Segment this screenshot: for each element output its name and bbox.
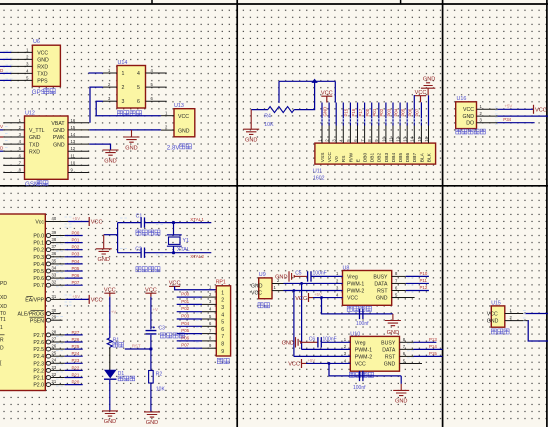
svg-text:PWK: PWK — [53, 135, 65, 141]
svg-text:Vcc: Vcc — [35, 220, 44, 226]
wire V0 top rail — [279, 80, 335, 82]
pin 32 of U7 (P0.7) — [46, 283, 51, 287]
capacitor C2 ceramic — [135, 246, 160, 272]
wire LCD col 11 — [392, 103, 394, 126]
pin 25 of U7 (P2.4) — [46, 354, 51, 358]
junction arrow on V0 wire — [311, 79, 317, 83]
wire C3 to RST junction — [150, 335, 152, 349]
wire V0 rail down to LCD pin3 — [334, 81, 336, 102]
svg-text:T1: T1 — [0, 317, 6, 323]
pin 27 of U7 (P2.6) — [46, 340, 51, 344]
wire U12 pin15 to U13 pin2 — [89, 129, 161, 131]
svg-text:VSS: VSS — [320, 153, 326, 163]
svg-text:VCC: VCC — [169, 281, 181, 287]
power VCC above R1 — [104, 293, 115, 297]
svg-text:P02: P02 — [379, 108, 384, 116]
svg-text:GND: GND — [387, 330, 399, 336]
svg-text:16: 16 — [71, 118, 76, 123]
svg-text:RP1: RP1 — [216, 280, 226, 286]
wire P25 — [65, 348, 83, 350]
svg-text:P0.2: P0.2 — [33, 248, 44, 254]
wire LCD col 16 — [428, 95, 430, 125]
wire P15 — [414, 355, 443, 357]
pin 1 of U13 — [161, 115, 174, 117]
svg-text:U10: U10 — [350, 331, 360, 337]
pin 5 of U6 — [11, 79, 32, 81]
wire P14 — [414, 348, 443, 350]
pin 8 of U10 — [400, 341, 414, 343]
wire U14 pin2 down to U12 pin16 — [90, 87, 103, 123]
svg-text:P2.0: P2.0 — [33, 383, 44, 389]
svg-text:34: 34 — [52, 265, 57, 270]
svg-text:100nf: 100nf — [353, 385, 366, 391]
wire U16 pin1 to VCC — [497, 108, 533, 110]
wire pin stub LCD col 6 — [357, 126, 359, 144]
svg-text:U13: U13 — [174, 103, 184, 109]
svg-text:P2.6: P2.6 — [33, 340, 44, 346]
wire stub U14 pin1 — [88, 72, 103, 74]
ground GND below D1 — [102, 411, 118, 417]
svg-text:P22: P22 — [72, 365, 80, 370]
svg-text:R: R — [0, 337, 4, 343]
svg-text:P15: P15 — [344, 108, 349, 116]
svg-text:100nF: 100nF — [313, 270, 327, 276]
svg-text:1: 1 — [122, 71, 125, 77]
svg-text:TXD: TXD — [29, 142, 40, 148]
junction RST — [149, 347, 152, 350]
svg-text:E: E — [355, 159, 361, 162]
pin 24 of U7 (P2.3) — [46, 361, 51, 365]
svg-text:VCC: VCC — [463, 107, 474, 113]
op-amp U6 GPS module connector — [11, 39, 60, 96]
svg-text:40: 40 — [52, 216, 57, 221]
svg-text:GND: GND — [53, 142, 65, 148]
pin 34 of U7 (P0.5) — [46, 269, 51, 273]
wire into U10 pin2 — [302, 348, 351, 350]
pin 2 of U16 — [477, 115, 498, 117]
ground GND below U8 — [385, 314, 401, 326]
svg-text:DB4: DB4 — [391, 153, 397, 163]
svg-text:C3: C3 — [159, 325, 166, 331]
pin 22 of U7 (P2.1) — [46, 376, 51, 380]
sheet border vertical right-middle — [442, 0, 444, 427]
ground GND left of R4 — [243, 129, 259, 135]
pin 28 of U7 (P2.7) — [46, 333, 51, 337]
svg-text:P03: P03 — [181, 314, 189, 319]
svg-text:VBAT: VBAT — [51, 121, 65, 127]
junction on row3 — [293, 289, 296, 292]
svg-text:30: 30 — [52, 308, 57, 313]
svg-text:Y1: Y1 — [183, 238, 189, 244]
svg-text:+5V: +5V — [72, 294, 80, 299]
power VCC above C3 — [145, 293, 156, 297]
svg-text:V0: V0 — [334, 156, 340, 162]
pin 2 of RP1 — [202, 296, 216, 298]
svg-text:3: 3 — [122, 99, 125, 105]
svg-text:R4: R4 — [264, 114, 271, 120]
wire R4 right up to V0 rail — [294, 81, 314, 109]
resistor R4 10K contrast pot — [264, 107, 294, 129]
sheet border horizontal top — [0, 3, 548, 5]
svg-text:+V: +V — [153, 307, 159, 312]
power VCC right of U16 pin1 — [533, 105, 535, 114]
wire to U6 pin1 — [0, 51, 11, 53]
svg-text:4: 4 — [221, 312, 224, 318]
wire R4 left to ground — [251, 109, 268, 111]
svg-text:P01: P01 — [372, 108, 377, 116]
pin 12 of U12 — [68, 150, 89, 152]
wire P21 — [65, 377, 83, 379]
wire LCD col 8 — [371, 103, 373, 126]
pin 39 of U7 (P0.0) — [46, 234, 51, 238]
svg-text:GND: GND — [37, 58, 49, 64]
svg-text:P03: P03 — [386, 108, 391, 116]
wire P13 — [414, 341, 437, 343]
pin 8 of U12 — [3, 172, 24, 174]
wire pin stub LCD col 2 — [328, 126, 330, 144]
pin 4 of RP1 — [202, 311, 216, 313]
wire pin stub LCD col 3 — [335, 126, 337, 144]
junction U10 pin4 branch — [328, 362, 331, 365]
svg-text:U8: U8 — [343, 266, 350, 272]
wire P20 — [65, 384, 83, 386]
svg-text:BUSY: BUSY — [381, 340, 396, 346]
wire LCD col 9 — [378, 103, 380, 126]
svg-text:U16: U16 — [457, 96, 467, 102]
op-amp U12 GSM module — [3, 111, 89, 188]
wire P23 — [65, 362, 83, 364]
pin 36 of U7 (P0.3) — [46, 255, 51, 259]
pin 3 of U6 — [11, 65, 32, 67]
svg-text:GND: GND — [275, 274, 287, 280]
pin 9 of RP1 — [202, 347, 216, 349]
junction at XTAL1/right rail — [172, 221, 175, 224]
capacitor C3 electrolytic — [146, 325, 185, 338]
pin 21 of U7 (P2.0) — [46, 383, 51, 387]
pin 7 of U12 — [3, 164, 24, 166]
pin 35 of U7 (P0.4) — [46, 262, 51, 266]
svg-text:23: 23 — [52, 365, 57, 370]
svg-text:U11: U11 — [313, 169, 322, 175]
wire LCD col 5 — [349, 103, 351, 126]
svg-text:28: 28 — [52, 329, 57, 334]
pin 1 of U14 — [103, 72, 117, 74]
wire down to U10 pin3 — [293, 291, 295, 357]
svg-text:21: 21 — [52, 379, 57, 384]
svg-text:P06: P06 — [181, 335, 189, 340]
wire VCC to U10 pin4 — [306, 362, 350, 364]
svg-text:Vreg: Vreg — [347, 275, 358, 281]
diode D1 — [104, 370, 135, 381]
svg-text:TXD: TXD — [37, 72, 48, 78]
svg-text:29: 29 — [52, 315, 57, 320]
wire pin stub LCD col 10 — [385, 126, 387, 144]
wire LCD col 14 — [413, 95, 415, 126]
svg-text:EA/VPP: EA/VPP — [25, 298, 44, 304]
wire LCD col 10 — [385, 103, 387, 126]
connector U9 power — [251, 272, 284, 308]
transistor U14 self-locking switch — [103, 60, 167, 116]
svg-text:PD: PD — [0, 281, 7, 287]
wire P03 — [65, 256, 83, 258]
wire U16 pin3 stub — [497, 122, 534, 124]
svg-text:8: 8 — [221, 342, 224, 348]
wire LCD col 7 — [364, 103, 366, 126]
wire pin stub LCD col 12 — [399, 126, 401, 144]
capacitor C1 ceramic — [136, 214, 160, 236]
wire RST stub — [125, 348, 151, 350]
wire pin31 to VCC — [65, 298, 89, 300]
svg-text:P34: P34 — [503, 117, 511, 122]
pin 6 of U8 — [392, 290, 406, 292]
svg-text:P2.5: P2.5 — [33, 347, 44, 353]
wire P11 — [406, 282, 429, 284]
pin 4 of U14 — [146, 72, 167, 74]
wire pin stub LCD col 11 — [392, 126, 394, 144]
svg-text:GND: GND — [251, 284, 263, 290]
svg-text:P2.2: P2.2 — [33, 368, 44, 374]
junction at XTAL2/right rail — [172, 251, 175, 254]
svg-text:U14: U14 — [118, 60, 128, 66]
wire C6 to U10 pin1 — [321, 341, 350, 343]
wire to U6 pin2 — [0, 58, 11, 60]
wire P00 — [65, 235, 83, 237]
pin 6 of U14 — [146, 100, 167, 102]
svg-text:GND: GND — [53, 128, 65, 134]
svg-text:6: 6 — [137, 99, 140, 105]
power VCC symbol on LCD col2 — [321, 96, 332, 102]
svg-text:P17: P17 — [358, 108, 363, 116]
pin 7 of U10 — [400, 348, 414, 350]
svg-text:P2.7: P2.7 — [33, 333, 44, 339]
svg-text:P20: P20 — [72, 380, 80, 385]
svg-text:P01: P01 — [181, 299, 189, 304]
ground GND left of C6 — [296, 337, 301, 347]
wire P03 to RP1 pin5 — [177, 318, 202, 320]
svg-text:3: 3 — [221, 305, 224, 311]
alarm U15 — [487, 300, 528, 334]
wire P06 — [65, 277, 83, 279]
ground GND below R2 — [144, 412, 160, 418]
pin 2 of U13 — [161, 129, 174, 131]
svg-text:22: 22 — [52, 372, 57, 377]
pin 7 of RP1 — [202, 333, 216, 335]
svg-text:VCC: VCC — [145, 287, 157, 293]
pin 37 of U7 (P0.2) — [46, 248, 51, 252]
svg-text:P2.1: P2.1 — [33, 376, 44, 382]
pin 30 of U7 (ALE/PROG) — [46, 312, 51, 316]
svg-text:P27: P27 — [72, 330, 80, 335]
wire to U6 pin4 — [0, 72, 11, 74]
svg-text:11: 11 — [71, 153, 76, 158]
power wire stub U12 pin3 — [0, 136, 3, 138]
svg-text:P23: P23 — [72, 358, 80, 363]
power VCC at pin 40 — [88, 217, 90, 226]
wire pin stub LCD col 13 — [406, 126, 408, 144]
svg-text:DB2: DB2 — [377, 153, 383, 163]
svg-text:P15: P15 — [429, 351, 437, 356]
wire P04 — [65, 263, 83, 265]
svg-text:P01: P01 — [72, 238, 80, 243]
svg-text:24: 24 — [52, 358, 57, 363]
wire P24 — [65, 355, 83, 357]
pin 29 of U7 (PSEN) — [46, 318, 51, 322]
svg-text:PWM-1: PWM-1 — [347, 282, 364, 288]
wire gnd tap — [104, 234, 118, 236]
svg-text:GND: GND — [322, 107, 327, 117]
pin 5 of RP1 — [202, 318, 216, 320]
wire P00 to RP1 pin2 — [177, 296, 202, 298]
sheet border vertical left-middle — [236, 0, 238, 427]
svg-text:U9: U9 — [259, 272, 266, 278]
pin 5 of U14 — [146, 86, 167, 88]
capacitor C6 100nF — [309, 337, 337, 348]
svg-text:+V: +V — [111, 310, 117, 315]
svg-text:R/W: R/W — [348, 152, 354, 162]
svg-text:P0.6: P0.6 — [33, 276, 44, 282]
voice chip U10 — [344, 331, 414, 371]
svg-text:P0.1: P0.1 — [33, 241, 44, 247]
wire P01 — [65, 242, 83, 244]
svg-text:DB1: DB1 — [370, 153, 376, 163]
pin 2 of U9 — [272, 283, 284, 285]
wire P04 to RP1 pin6 — [177, 325, 202, 327]
pin 5 stub of U8 — [392, 297, 415, 299]
svg-text:C5: C5 — [295, 270, 302, 276]
svg-text:P06: P06 — [72, 273, 80, 278]
svg-text:32: 32 — [52, 280, 57, 285]
wire U12 pin13 to ground — [89, 144, 110, 149]
svg-text:GND: GND — [462, 114, 474, 120]
resistor R1 — [107, 337, 123, 347]
ground GND of crystal caps — [96, 235, 112, 254]
resistor network RP1 — [202, 280, 231, 364]
svg-text:P2.3: P2.3 — [33, 361, 44, 367]
wire tick top edge B — [400, 0, 402, 5]
resistor R2 10K — [149, 371, 166, 393]
svg-text:PSEN: PSEN — [30, 318, 44, 324]
battery U13 2.8V — [161, 103, 195, 151]
pin 9 of U12 — [68, 172, 89, 174]
svg-text:P00: P00 — [72, 230, 80, 235]
svg-text:T0: T0 — [0, 311, 6, 317]
svg-text:P24: P24 — [72, 351, 80, 356]
wire LCD col 6 — [357, 103, 359, 126]
svg-text:P03: P03 — [72, 252, 80, 257]
svg-text:DATA: DATA — [374, 282, 388, 288]
svg-text:P0.3: P0.3 — [33, 255, 44, 261]
svg-text:P10: P10 — [420, 271, 428, 276]
svg-text:P06: P06 — [408, 108, 413, 116]
svg-text:DB7: DB7 — [412, 153, 418, 163]
wire U9 pin2 to U8 pin2 — [284, 282, 343, 284]
svg-text:P0.4: P0.4 — [33, 262, 44, 268]
svg-text:PPS: PPS — [37, 79, 48, 85]
wire down to U10 pin2 — [301, 283, 303, 349]
pin 5 of U12 — [3, 150, 24, 152]
svg-text:BLK: BLK — [426, 152, 432, 162]
pin 5 of U8 — [392, 297, 406, 299]
svg-text:P21: P21 — [72, 372, 80, 377]
svg-text:GND: GND — [395, 399, 407, 405]
svg-text:GND: GND — [245, 138, 257, 144]
wire to U6 pin3 — [0, 65, 11, 67]
svg-text:15: 15 — [71, 125, 76, 130]
pin 6 of RP1 — [202, 325, 216, 327]
sensor U16 light sensor — [456, 96, 498, 134]
svg-text:Vreg: Vreg — [355, 340, 366, 346]
svg-text:PWM-1: PWM-1 — [355, 347, 372, 353]
pin 3 of U16 — [477, 122, 498, 124]
pin 40 of U7 (Vcc) — [45, 221, 68, 223]
svg-text:10: 10 — [71, 160, 76, 165]
wire LCD col 15 — [420, 102, 422, 125]
svg-text:10K: 10K — [264, 122, 274, 128]
svg-text:GND: GND — [376, 296, 388, 302]
svg-text:P04: P04 — [393, 108, 398, 116]
svg-text:RXD: RXD — [29, 149, 40, 155]
wire D1 to ground — [109, 380, 111, 411]
wire tick top edge A — [151, 0, 153, 5]
svg-text:U15: U15 — [491, 300, 501, 306]
pin 3 of U14 — [103, 100, 117, 102]
wire pin stub LCD col 8 — [371, 126, 373, 144]
svg-text:XD: XD — [0, 304, 7, 310]
svg-text:XD: XD — [0, 295, 7, 301]
pin 6 of U10 — [400, 355, 414, 357]
wire P05 to RP1 pin7 — [177, 333, 202, 335]
svg-text:P07: P07 — [415, 108, 420, 116]
svg-text:C2: C2 — [135, 246, 142, 252]
wire LCD col 1 — [321, 103, 323, 126]
svg-text:14: 14 — [71, 132, 76, 137]
svg-text:P04: P04 — [72, 259, 80, 264]
power VCC to U10 pin4 — [302, 359, 307, 368]
svg-text:GND: GND — [384, 362, 396, 368]
pin 7 of U8 — [392, 282, 406, 284]
svg-text:DO: DO — [466, 121, 474, 127]
ground GND inverted on LCD col16 — [421, 83, 435, 96]
svg-text:RS: RS — [341, 156, 347, 163]
svg-text:100nf: 100nf — [356, 321, 369, 327]
svg-text:35: 35 — [52, 258, 57, 263]
wire U10 decoupling branch — [329, 363, 401, 375]
wire to U6 pin5 — [0, 79, 11, 81]
svg-text:GND: GND — [282, 340, 294, 346]
svg-text:GPS: GPS — [32, 89, 45, 96]
crystal Y1 XTAL — [167, 223, 190, 253]
pin 2 of U14 — [103, 86, 117, 88]
svg-text:P0.7: P0.7 — [33, 283, 44, 289]
svg-text:9: 9 — [221, 349, 224, 355]
junction on row2 — [300, 282, 303, 285]
svg-text:VCC: VCC — [355, 362, 366, 368]
pin 5 of U10 — [400, 362, 414, 364]
svg-text:C1: C1 — [136, 214, 143, 220]
svg-text:XTAL2: XTAL2 — [190, 254, 204, 259]
svg-text:GND: GND — [487, 319, 499, 325]
svg-text:P02: P02 — [72, 245, 80, 250]
svg-text:VCC: VCC — [288, 362, 300, 368]
pin 1 of U12 — [3, 122, 24, 124]
pin 16 of U12 — [68, 122, 89, 124]
wire P05 — [65, 270, 83, 272]
wire P01 to RP1 pin3 — [177, 303, 202, 305]
wire gnd to C5 — [294, 275, 307, 277]
pin 2 of U15 — [505, 320, 528, 322]
svg-text:P00: P00 — [365, 108, 370, 116]
wire pin40 to VCC — [68, 221, 89, 223]
